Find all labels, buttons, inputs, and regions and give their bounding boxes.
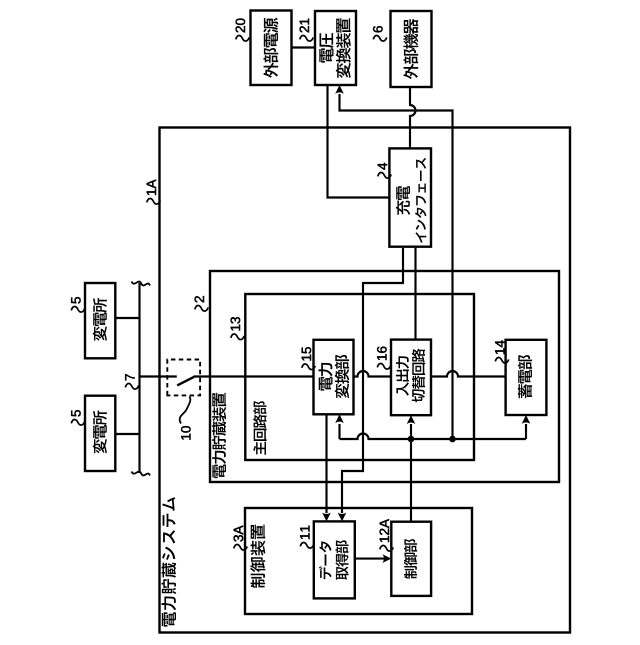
label 5 left (71, 420, 84, 426)
label 15 (302, 364, 315, 370)
wire main line upper (bus to switch) (140, 375, 177, 377)
box 電圧変換装置 21 (315, 11, 356, 85)
wire 制御部 to 入出力切替回路 (410, 424, 412, 522)
wire 入出力切替回路 to 充電インタフェース (414, 248, 416, 340)
switch blade (177, 377, 194, 386)
label 3A (234, 545, 247, 551)
text 主回路部 (253, 401, 266, 455)
wire 充電インタフェース to 外部機器 with hop over long wire (410, 87, 416, 148)
box 充電インタフェース 4 (389, 148, 431, 246)
box 入出力切替回路 16 (391, 340, 431, 416)
label 20 (236, 36, 249, 42)
wire 変電所 left stub (117, 433, 140, 435)
label 10 with lead squiggle (181, 426, 191, 440)
wire 充電インタフェース right to 電圧変換装置 (long) (340, 94, 453, 439)
break mark right end of bus (132, 282, 151, 286)
text 電力貯蔵装置 (212, 393, 226, 478)
junction dot at 電圧変換装置 wire (449, 436, 456, 443)
box 電力変換部 15 (314, 340, 354, 415)
label 1A (147, 199, 160, 205)
label 4 (378, 173, 391, 179)
text 電力貯蔵システム (162, 497, 177, 626)
switch 10 dashed box (167, 360, 200, 396)
box 蓄電部 14 (506, 340, 547, 415)
box 3A 制御装置 (245, 508, 472, 614)
wire arrow branch into 電力変換部 (338, 424, 340, 439)
box 13 主回路部 (245, 294, 474, 460)
box 外部機器 6 (391, 11, 432, 87)
label 5 right (71, 307, 84, 313)
box 変電所 5 (right) (85, 283, 115, 358)
wire 電力変換部 to データ取得部 (325, 414, 327, 513)
wire データ取得部 to 制御部 (355, 558, 385, 560)
label 6 (373, 36, 386, 42)
label 16 (377, 364, 390, 370)
label 21 (300, 36, 313, 42)
box 2 電力貯蔵装置 (210, 271, 559, 482)
break mark left end of bus (132, 472, 151, 476)
outer box 1A 電力貯蔵システム (160, 128, 571, 633)
wire 電圧変換装置 to 充電インタフェース top (328, 85, 391, 198)
label 12A (380, 546, 393, 552)
box データ取得部 11 (314, 521, 355, 598)
wire power bus 7 (138, 283, 140, 473)
wire 変電所 right stub (117, 317, 140, 319)
text 制御装置 (250, 525, 265, 588)
wire main line 電力変換部 to 入出力切替回路 with hop (354, 371, 392, 377)
wire main line below switch to 電力変換部 (194, 375, 314, 377)
label 13 (231, 334, 244, 340)
wire main line 入出力切替回路 to 蓄電部 with hop (431, 371, 506, 377)
box 変電所 5 (left) (85, 396, 115, 471)
wire branch left vertical (to arrows into 電力変換部/蓄電部) with hop (340, 434, 527, 440)
wire 外部電源 to 電圧変換装置 (node 21 connector) (292, 46, 316, 48)
wire 充電インタフェース to データ取得部 (jogged) (342, 248, 403, 513)
box 外部電源 20 (251, 11, 292, 86)
junction dot at 制御部 wire (408, 436, 415, 443)
label 7 (125, 384, 138, 390)
label 14 (495, 358, 508, 364)
label 11 (300, 543, 313, 549)
label 2 (195, 306, 208, 312)
box 制御部 12A (391, 522, 431, 596)
wire arrow branch into 蓄電部 (525, 424, 527, 439)
